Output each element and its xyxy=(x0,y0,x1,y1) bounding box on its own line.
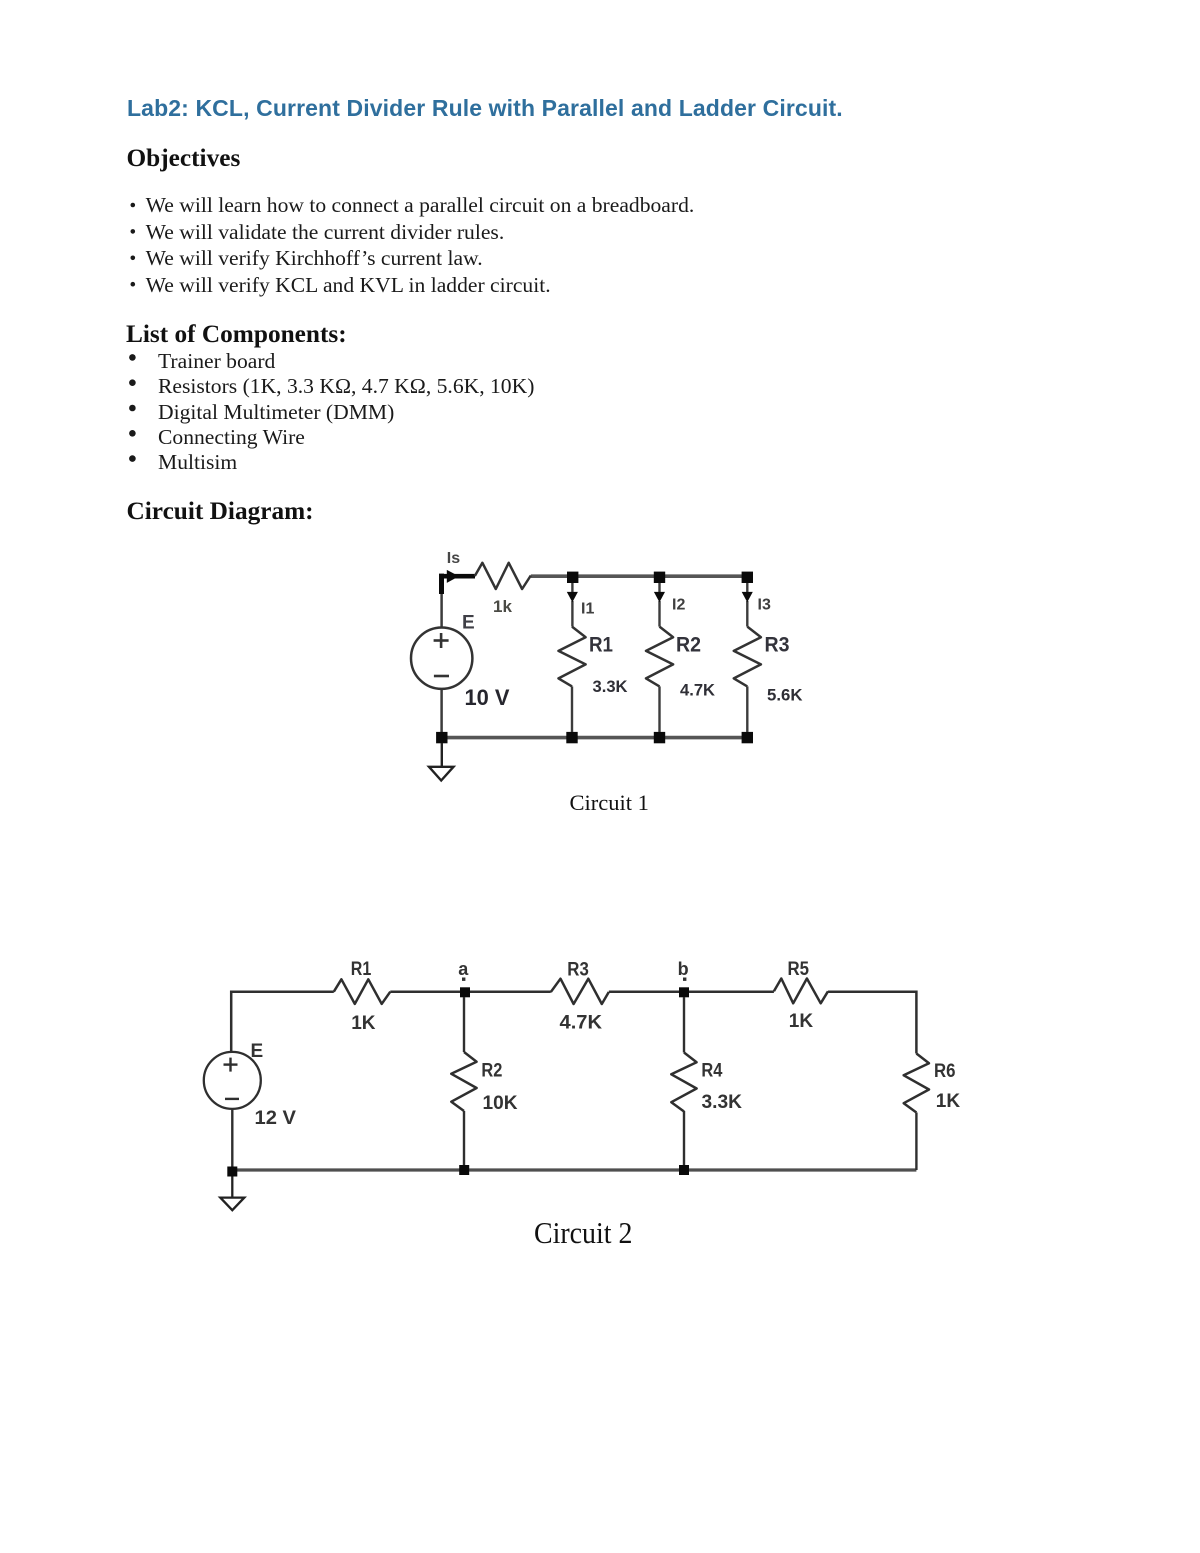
node: C2 bottom left xyxy=(227,1167,237,1177)
svg-text:R2: R2 xyxy=(676,634,701,657)
label 1K (R1) xyxy=(351,1013,376,1034)
svg-text:1k: 1k xyxy=(493,597,512,616)
label R1 xyxy=(589,634,613,657)
branch R3: wire and current arrow I3 xyxy=(746,583,748,732)
label 10K xyxy=(483,1093,518,1114)
label a xyxy=(458,959,469,979)
branch R1: wire and current arrow I1 xyxy=(571,583,574,732)
objectives text xyxy=(146,192,695,298)
node: C2 bottom node b xyxy=(679,1165,689,1175)
svg-text:1K: 1K xyxy=(351,1013,376,1034)
components text xyxy=(158,349,534,475)
label E (circuit 2) xyxy=(251,1041,264,1062)
wire: C2 top rail xyxy=(231,992,916,1054)
voltage source E (circuit 2) xyxy=(204,1052,261,1109)
label R2 (circuit 2) xyxy=(481,1060,502,1081)
svg-text:R4: R4 xyxy=(701,1060,722,1081)
heading Objectives xyxy=(127,146,241,171)
svg-text:R5: R5 xyxy=(788,959,810,980)
svg-text:1K: 1K xyxy=(936,1091,961,1112)
branch R2 (circuit 2): wire xyxy=(463,997,465,1166)
caption Circuit 1 xyxy=(570,792,649,815)
label 10 V xyxy=(465,685,510,710)
svg-text:3.3K: 3.3K xyxy=(702,1092,743,1113)
current arrow Is xyxy=(439,570,475,594)
label I3 xyxy=(758,597,771,614)
components bullets xyxy=(0,330,1200,490)
node b xyxy=(679,987,689,997)
label 4.7K xyxy=(680,681,716,700)
wire: C1 top rail xyxy=(531,574,748,578)
resistor R2 (zigzag) xyxy=(646,627,673,687)
label 3.3K (R4) xyxy=(702,1092,743,1113)
heading List of Components xyxy=(126,322,347,347)
resistor R5 (zigzag, circuit 2) xyxy=(774,979,828,1004)
node: C1 bottom node 3 xyxy=(742,732,753,743)
svg-text:E: E xyxy=(251,1041,264,1062)
label I2 xyxy=(672,597,685,614)
label R1 (circuit 2) xyxy=(351,959,372,980)
resistor R1 (zigzag) xyxy=(559,627,586,687)
label R2 xyxy=(676,634,701,657)
label R6 xyxy=(934,1061,956,1082)
objectives bullets xyxy=(0,0,1200,300)
svg-text:12 V: 12 V xyxy=(255,1108,297,1129)
label Is xyxy=(447,550,460,567)
resistor R3 (zigzag, circuit 2) xyxy=(551,979,609,1004)
svg-text:5.6K: 5.6K xyxy=(767,686,803,705)
svg-text:R3: R3 xyxy=(567,959,589,980)
resistor 1k (zigzag) xyxy=(475,563,531,589)
svg-text:1K: 1K xyxy=(789,1011,814,1032)
svg-text:10K: 10K xyxy=(483,1093,518,1114)
node: C1 top node 3 xyxy=(742,572,753,583)
wire: C1 left vertical (source branch) xyxy=(440,576,443,738)
svg-text:I1: I1 xyxy=(581,601,594,618)
svg-text:10 V: 10 V xyxy=(465,685,510,710)
node a xyxy=(460,987,470,997)
resistor R6 (zigzag, circuit 2) xyxy=(904,1054,929,1113)
label R5 xyxy=(788,959,810,980)
node: C2 bottom node a xyxy=(459,1165,469,1175)
branch R2: wire and current arrow I2 xyxy=(658,583,660,732)
svg-text:R1: R1 xyxy=(351,959,372,980)
label 5.6K xyxy=(767,686,803,705)
svg-text:R2: R2 xyxy=(481,1060,502,1081)
branch R4 (circuit 2): wire xyxy=(683,997,685,1166)
wire: C2 right vertical below R6 xyxy=(915,1113,917,1171)
svg-text:Is: Is xyxy=(447,550,460,567)
ground (circuit 1) xyxy=(429,743,454,781)
resistor R4 (zigzag, circuit 2) xyxy=(671,1053,696,1112)
svg-text:4.7K: 4.7K xyxy=(680,681,716,700)
svg-text:b: b xyxy=(678,959,689,979)
svg-text:R3: R3 xyxy=(765,634,790,657)
svg-text:a: a xyxy=(458,959,469,979)
voltage source E (circle with plus minus) xyxy=(411,628,472,689)
svg-text:I2: I2 xyxy=(672,597,685,614)
svg-text:E: E xyxy=(462,613,475,634)
label 12 V xyxy=(255,1108,297,1129)
node: C1 top node 2 xyxy=(654,572,665,583)
label 1k xyxy=(493,597,512,616)
svg-text:I3: I3 xyxy=(758,597,771,614)
svg-text:4.7K: 4.7K xyxy=(560,1013,603,1034)
wire: C1 bottom rail xyxy=(442,736,748,740)
svg-text:R1: R1 xyxy=(589,634,613,657)
label 1K (R6) xyxy=(936,1091,961,1112)
resistor R1 (zigzag, circuit 2) xyxy=(334,979,391,1004)
node: C1 bottom node 1 xyxy=(566,732,577,743)
node: C1 bottom node 2 xyxy=(654,732,665,743)
heading Circuit Diagram xyxy=(127,499,314,524)
label R4 xyxy=(701,1060,722,1081)
label 3.3K xyxy=(593,677,629,696)
wire: C2 left vertical below source xyxy=(231,1109,233,1172)
label 1K (R5) xyxy=(789,1011,814,1032)
label R3 (circuit 2) xyxy=(567,959,589,980)
label b xyxy=(678,959,689,979)
node: C1 top node 1 xyxy=(567,572,578,583)
label I1 xyxy=(581,601,594,618)
label 4.7K (R3) xyxy=(560,1013,603,1034)
caption Circuit 2 xyxy=(534,1217,632,1248)
node: C1 bottom left xyxy=(436,732,447,743)
ground (circuit 2) xyxy=(220,1177,244,1211)
resistor R2 (zigzag, circuit 2) xyxy=(451,1052,476,1111)
label R3 xyxy=(765,634,790,657)
svg-text:3.3K: 3.3K xyxy=(593,677,629,696)
title xyxy=(127,97,843,120)
resistor R3 (zigzag) xyxy=(734,627,761,687)
wire: C2 bottom rail xyxy=(231,1168,916,1171)
svg-text:R6: R6 xyxy=(934,1061,956,1082)
label E xyxy=(462,613,475,634)
